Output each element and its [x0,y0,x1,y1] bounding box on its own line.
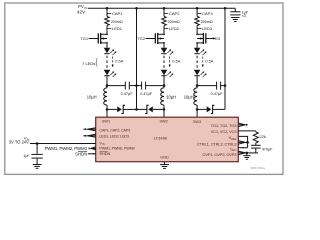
wire: channel 2 column top [163,8,165,16]
capacitor C1 0.47µF [121,82,134,97]
wire: LED string to inductor node ch2 [163,76,165,86]
wire: channel 3 column top [196,8,198,16]
node: SW junction ch2 [163,108,166,111]
wire: VIN input [30,143,96,145]
ground: IC GND pin [160,162,169,169]
svg-text:SHDN: SHDN [99,152,110,156]
right fan: OVP pins [238,151,258,155]
svg-text:CAP2: CAP2 [169,11,180,16]
right fan: TG pins callout [238,123,248,127]
svg-text:SW2: SW2 [159,120,167,124]
svg-text:200mΩ: 200mΩ [201,20,213,24]
svg-text:CTRL1, CTRL2, CTRL3: CTRL1, CTRL2, CTRL3 [197,141,237,146]
svg-text:3V TO 24V: 3V TO 24V [9,140,29,145]
svg-text:0.5A: 0.5A [172,58,180,63]
capacitor CC 470pF [251,143,273,153]
capacitor C3 0.47µF [211,82,224,97]
node: rail junction channel 3 [196,7,199,10]
svg-text:VREF: VREF [229,136,237,141]
capacitor CVIN 1µF [23,144,42,159]
node LED3 pin tick [197,26,213,31]
node CAP1 pin tick [107,11,123,16]
svg-text:0.47µF: 0.47µF [121,92,134,96]
svg-text:10µH: 10µH [87,94,97,99]
wire: LED string to inductor node ch1 [106,76,108,86]
svg-text:GND: GND [160,155,169,159]
svg-text:CAP3: CAP3 [202,11,213,16]
net VIN label 3V TO 24V [9,136,30,145]
node CAP3 pin tick [197,11,213,16]
svg-text:VC1, VC2, VC3: VC1, VC2, VC3 [211,129,238,134]
wire: CAP1/LED1 segment [106,26,108,34]
wire: SW3 pin stub [196,109,198,117]
svg-text:TG1, TG2, TG3: TG1, TG2, TG3 [211,123,238,128]
wire: cap C2 to ch2 column [146,85,164,87]
wire: channel 1 column top [106,8,108,16]
node: output junction ch3 [196,84,199,87]
right fan: CTRL pins [238,141,247,145]
svg-text:7 LEDs: 7 LEDs [82,61,95,66]
node: VREF-CTRL junction [246,141,249,144]
svg-text:×3: ×3 [242,14,246,18]
LED D2a top of string [161,48,174,55]
diode D1 schottky ch1 [107,105,137,113]
wire: return line 2 (rail to corner) [224,8,226,109]
wire: PMOS to LED string ch3 [196,43,198,48]
current arrow 0.5A ch3 [202,57,214,68]
net PVIN supply label 42V [77,4,87,14]
capacitor C2 0.47µF [137,82,153,97]
pin SHDN label (internal) [99,152,110,156]
wire: VREF row [238,136,247,142]
node LED1 pin tick [107,26,123,31]
svg-text:22k: 22k [259,134,265,139]
wire: PMOS to LED string ch1 [106,43,108,48]
resistor R3 200m&#937; sense [195,16,213,25]
ground: VIN cap [33,158,42,168]
node: SW junction ch3 [196,108,199,111]
LED D3a top of string [194,48,207,55]
wire: ch3 output cap row [197,85,217,87]
inductor L2 10µH [161,86,164,110]
svg-text:SW3: SW3 [193,120,201,124]
svg-text:200mΩ: 200mΩ [111,20,123,24]
wire: VREF to fADJ vertical [247,142,249,147]
node CAP2 pin tick [164,11,180,16]
svg-text:PWM1, PWM2, PWM3: PWM1, PWM2, PWM3 [99,146,134,150]
svg-text:PWM1, PWM2, PWM3: PWM1, PWM2, PWM3 [45,146,88,151]
transistor Q1 PMOS disconnect (TG1) [89,33,108,44]
wire: CAP2/LED2 segment [163,26,165,34]
node: VIN cap junction [36,142,39,145]
border frame [5,3,283,174]
svg-text:200mΩ: 200mΩ [168,20,180,24]
node: rail junction return line 2 [224,7,227,10]
capacitor CIN 1uF x3 [230,8,249,18]
svg-text:LED3: LED3 [202,26,213,31]
node: rail junction channel 1 [106,7,109,10]
svg-text:CAP1, CAP2, CAP3: CAP1, CAP2, CAP3 [99,129,130,133]
wire: CAP3/LED3 segment [196,26,198,34]
wire: PVIN top rail [88,7,236,9]
wire: SHDN pin [88,153,96,155]
svg-text:10µH: 10µH [166,94,176,99]
svg-text:TG2: TG2 [137,36,145,41]
wire+fan: PWM pins [89,147,96,150]
node: rail junction channel 2 [163,7,166,10]
wire: fADJ row [238,147,247,149]
current arrow 0.5A ch2 [169,57,181,68]
resistor RC 22k [253,131,266,143]
wire: dashed LED string continuation ch3 [196,56,198,69]
node: SW junction ch1 [106,108,109,111]
svg-text:LED1: LED1 [112,26,123,31]
wire: return line 1 (rail to SW row) [136,8,138,109]
node LED2 pin tick [164,26,180,31]
wire: SW1 pin stub [106,109,108,117]
label SHDN input [75,151,87,156]
left fan: CAP pins callout [83,128,96,131]
inductor L1 10µH [104,86,107,110]
node: output junction ch1 [106,84,109,87]
LED D3b bottom of string [194,70,207,77]
svg-text:0.5A: 0.5A [115,58,123,63]
node: return2 cap junction [224,84,227,87]
svg-text:1µF: 1µF [23,154,30,158]
LED D1a top of string [104,48,117,55]
svg-text:0.47µF: 0.47µF [211,92,224,96]
svg-text:3496 TA01a: 3496 TA01a [250,166,265,170]
LED D1b bottom of string [104,70,117,77]
svg-text:SHDN: SHDN [75,151,87,156]
wire: ch1 output cap row [107,85,125,87]
svg-text:LED1, LED2, LED3: LED1, LED2, LED3 [99,135,129,139]
wire: dashed LED string continuation ch1 [106,56,108,69]
diode D3 schottky ch3 [197,105,225,113]
svg-text:LED2: LED2 [169,26,180,31]
transistor Q3 PMOS disconnect (TG3) [196,33,215,44]
node: rail junction return line 1 [135,7,138,10]
svg-text:0.47µF: 0.47µF [140,92,153,96]
left fan: LED pins callout [83,134,96,137]
svg-text:TG1: TG1 [80,36,88,41]
node: return1 bottom junction [135,108,138,111]
svg-text:TG3: TG3 [212,36,220,41]
current arrow 0.5A ch1 [112,57,124,68]
wire: VC compensation row [238,130,256,132]
svg-text:470pF: 470pF [262,147,273,151]
wire: cap C1 to return line [129,85,136,87]
diode D2 schottky ch2 [137,105,165,113]
inductor L3 10µH [194,86,197,110]
node: return1 cap junction [135,84,138,87]
wire: dashed LED string continuation ch2 [163,56,165,69]
svg-text:10µH: 10µH [184,94,194,99]
ground: compensation network [243,153,250,159]
svg-text:OVP1, OVP2, OVP3: OVP1, OVP2, OVP3 [202,152,237,157]
wire: LED string to inductor node ch3 [196,76,198,86]
node: output junction ch2 [163,84,166,87]
transistor Q2 PMOS disconnect (TG2) [146,33,165,44]
svg-text:CAP1: CAP1 [112,11,123,16]
resistor R1 200m&#937; sense [105,16,123,25]
svg-text:LT3496: LT3496 [154,135,168,140]
svg-text:0.5A: 0.5A [205,58,213,63]
label: 7 LEDs per string [82,58,97,66]
ground: input cap [231,18,239,22]
LED D2b bottom of string [161,70,174,77]
svg-text:SW1: SW1 [102,119,110,123]
svg-text:42V: 42V [77,10,85,15]
wire: cap C3 to return line 2 [221,85,225,87]
wire: SW2 pin stub [163,109,165,117]
op-amp U1 LT3496 IC body [96,117,239,162]
resistor R2 200m&#937; sense [162,16,180,25]
node: OVP ground junction [246,152,249,155]
wire: PMOS to LED string ch2 [163,43,165,48]
